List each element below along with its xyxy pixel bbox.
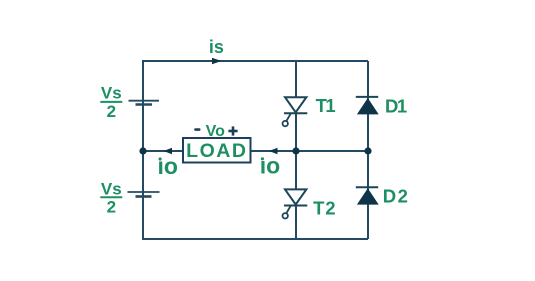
- diode D2: [356, 187, 379, 204]
- wire bottom horizontal: [143, 238, 368, 240]
- battery B1 short plate: [136, 103, 153, 106]
- wire thyristor branch vertical: [295, 61, 297, 239]
- svg-text:LOAD: LOAD: [186, 140, 247, 162]
- thyristor T2: [283, 189, 308, 218]
- thyristor T1: [283, 97, 308, 126]
- node B (thyristor branch junction dot): [292, 147, 299, 154]
- svg-text:D2: D2: [383, 186, 410, 207]
- diode D1: [356, 97, 379, 115]
- svg-text:T2: T2: [313, 198, 336, 219]
- battery B2 (Vs/2 bottom) long plate: [128, 191, 160, 193]
- battery B2 short plate: [136, 195, 152, 198]
- node C (diode branch junction dot): [364, 147, 371, 154]
- svg-text:Vs: Vs: [101, 179, 122, 198]
- label Vs/2 bottom: [100, 179, 122, 216]
- svg-text:Vs: Vs: [101, 83, 122, 102]
- wire left vertical: [142, 60, 144, 240]
- arrow is (current direction, top wire): [212, 58, 222, 65]
- LOAD box: [183, 138, 251, 163]
- svg-text:2: 2: [107, 102, 116, 121]
- svg-text:D1: D1: [385, 95, 407, 116]
- arrow io right (pointing left): [269, 148, 278, 154]
- battery B1 (Vs/2 top) long plate: [129, 100, 160, 102]
- wire middle horizontal (load line): [143, 150, 368, 152]
- wire top horizontal: [143, 60, 368, 62]
- svg-text:ıo: ıo: [260, 153, 280, 179]
- wire diode branch vertical: [367, 61, 369, 239]
- node A (left junction dot): [139, 147, 146, 154]
- label Vs/2 top: [100, 83, 122, 121]
- svg-text:is: is: [209, 37, 224, 57]
- svg-text:T1: T1: [316, 95, 336, 116]
- label - Vo+ : plus sign: [228, 126, 237, 135]
- label - Vo+ : minus sign: [194, 128, 200, 131]
- svg-text:ıo: ıo: [158, 153, 178, 179]
- arrow io left (pointing left): [164, 148, 173, 154]
- svg-text:2: 2: [107, 198, 116, 217]
- svg-text:Vo: Vo: [206, 123, 225, 140]
